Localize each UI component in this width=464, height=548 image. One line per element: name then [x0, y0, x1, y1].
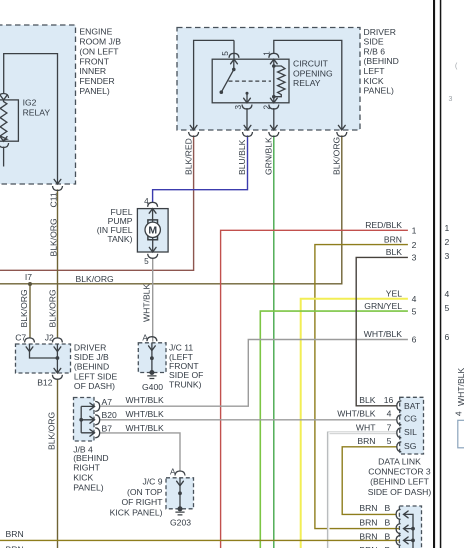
- svg-text:4: 4: [412, 294, 417, 304]
- svg-text:KICK PANEL): KICK PANEL): [110, 508, 163, 518]
- svg-text:SIL: SIL: [404, 427, 417, 437]
- svg-text:CIRCUIT: CIRCUIT: [293, 59, 329, 69]
- svg-text:1: 1: [445, 223, 450, 233]
- svg-text:BLK/RED: BLK/RED: [183, 138, 193, 175]
- svg-text:WHT/BLK: WHT/BLK: [126, 423, 164, 433]
- svg-text:1: 1: [412, 226, 417, 236]
- svg-text:3: 3: [445, 251, 450, 261]
- svg-text:B: B: [385, 532, 391, 542]
- svg-text:WHT/BLK: WHT/BLK: [142, 284, 152, 322]
- svg-text:RELAY: RELAY: [293, 78, 321, 88]
- svg-text:SIDE: SIDE: [364, 37, 384, 47]
- svg-text:LEFT: LEFT: [364, 66, 386, 76]
- svg-text:BLK/ORG: BLK/ORG: [19, 289, 29, 328]
- svg-text:WHT: WHT: [356, 422, 376, 432]
- svg-text:A: A: [170, 467, 176, 476]
- svg-text:BLK: BLK: [386, 247, 403, 257]
- svg-text:5: 5: [387, 436, 392, 446]
- svg-text:PANEL): PANEL): [73, 482, 104, 492]
- svg-text:KICK: KICK: [73, 473, 93, 483]
- svg-text:1: 1: [262, 51, 271, 56]
- svg-text:4: 4: [144, 197, 149, 206]
- svg-text:3: 3: [412, 253, 417, 263]
- svg-text:DATA LINK: DATA LINK: [378, 456, 421, 466]
- svg-text:4: 4: [445, 289, 450, 299]
- svg-text:2: 2: [412, 240, 417, 250]
- svg-text:G400: G400: [142, 382, 163, 392]
- svg-text:SIDE OF DASH): SIDE OF DASH): [368, 487, 432, 497]
- svg-text:I7: I7: [25, 272, 32, 282]
- svg-text:C7: C7: [15, 332, 26, 342]
- svg-text:WHT/BLK: WHT/BLK: [364, 329, 402, 339]
- svg-text:(BEHIND: (BEHIND: [74, 362, 109, 372]
- svg-text:3: 3: [234, 105, 243, 110]
- svg-text:J/C 9: J/C 9: [142, 477, 162, 487]
- svg-text:KICK: KICK: [364, 76, 384, 86]
- svg-text:J2: J2: [45, 332, 54, 342]
- svg-text:LEFT SIDE: LEFT SIDE: [74, 371, 118, 381]
- svg-text:DRIVER: DRIVER: [74, 343, 106, 353]
- svg-text:SG: SG: [404, 441, 417, 451]
- svg-text:(ON LEFT: (ON LEFT: [79, 46, 119, 56]
- svg-text:OF DASH): OF DASH): [74, 381, 115, 391]
- svg-text:WHT/BLK: WHT/BLK: [126, 409, 164, 419]
- svg-text:BLK: BLK: [359, 395, 376, 405]
- svg-text:FENDER: FENDER: [79, 76, 114, 86]
- svg-text:R/B 6: R/B 6: [364, 46, 386, 56]
- svg-text:CG: CG: [404, 414, 417, 424]
- svg-text:16: 16: [384, 395, 394, 405]
- svg-text:ROOM J/B: ROOM J/B: [79, 37, 121, 47]
- svg-text:BRN: BRN: [6, 544, 24, 548]
- svg-text:B7: B7: [102, 423, 113, 433]
- svg-text:BRN: BRN: [359, 518, 377, 528]
- svg-text:BRN: BRN: [384, 234, 402, 244]
- svg-text:OPENING: OPENING: [293, 68, 333, 78]
- svg-text:BLU/BLK: BLU/BLK: [237, 139, 247, 175]
- svg-text:BLK/ORG: BLK/ORG: [332, 136, 342, 175]
- svg-text:4: 4: [387, 409, 392, 419]
- svg-text:G203: G203: [170, 517, 191, 527]
- svg-text:C11: C11: [48, 192, 58, 207]
- svg-text:2: 2: [262, 105, 271, 110]
- svg-text:TRUNK): TRUNK): [169, 379, 202, 389]
- svg-text:7: 7: [387, 422, 392, 432]
- svg-text:RED/BLK: RED/BLK: [365, 220, 402, 230]
- svg-text:INNER: INNER: [79, 66, 106, 76]
- svg-text:B: B: [385, 503, 391, 513]
- svg-text:DRIVER: DRIVER: [364, 27, 396, 37]
- svg-text:BLK/ORG: BLK/ORG: [76, 274, 115, 284]
- svg-text:(ON TOP: (ON TOP: [127, 487, 163, 497]
- svg-text:PANEL): PANEL): [364, 86, 395, 96]
- svg-text:5: 5: [221, 51, 230, 56]
- svg-text:B: B: [385, 518, 391, 528]
- svg-text:(BEHIND: (BEHIND: [73, 453, 108, 463]
- svg-text:FRONT: FRONT: [79, 56, 109, 66]
- svg-text:BLK/ORG: BLK/ORG: [48, 218, 58, 257]
- svg-text:BRN: BRN: [359, 503, 377, 513]
- svg-text:BRN: BRN: [359, 532, 377, 542]
- svg-text:2: 2: [445, 237, 450, 247]
- svg-text:SIDE J/B: SIDE J/B: [74, 352, 109, 362]
- svg-text:B20: B20: [102, 410, 118, 420]
- svg-text:4: 4: [454, 411, 463, 416]
- svg-text:BRN: BRN: [6, 529, 24, 539]
- svg-text:OF RIGHT: OF RIGHT: [121, 497, 163, 507]
- svg-text:RIGHT: RIGHT: [73, 463, 100, 473]
- svg-text:(BEHIND: (BEHIND: [364, 56, 399, 66]
- svg-text:BRN: BRN: [357, 436, 375, 446]
- svg-text:5: 5: [412, 306, 417, 316]
- svg-text:TANK): TANK): [107, 234, 132, 244]
- svg-text:BLK/ORG: BLK/ORG: [47, 289, 57, 328]
- svg-text:GRN/BLK: GRN/BLK: [263, 137, 273, 175]
- svg-text:CONNECTOR 3: CONNECTOR 3: [368, 467, 431, 477]
- svg-text:WHT/BLK: WHT/BLK: [126, 395, 164, 405]
- svg-text:ENGINE: ENGINE: [79, 27, 112, 37]
- svg-text:B12: B12: [37, 377, 53, 387]
- svg-text:6: 6: [445, 332, 450, 342]
- svg-text:RELAY: RELAY: [23, 107, 51, 117]
- svg-text:A7: A7: [102, 397, 113, 407]
- svg-text:GRN/YEL: GRN/YEL: [364, 301, 402, 311]
- svg-text:A: A: [142, 333, 148, 342]
- svg-text:YEL: YEL: [386, 289, 402, 299]
- svg-text:(BEHIND LEFT: (BEHIND LEFT: [370, 477, 429, 487]
- svg-text:5: 5: [445, 303, 450, 313]
- svg-text:5: 5: [144, 257, 149, 266]
- svg-text:6: 6: [412, 335, 417, 345]
- svg-text:PANEL): PANEL): [79, 86, 110, 96]
- svg-text:BLK/ORG: BLK/ORG: [46, 411, 56, 450]
- svg-text:IG2: IG2: [23, 98, 37, 108]
- svg-text:WHT/BLK: WHT/BLK: [337, 409, 375, 419]
- svg-text:BAT: BAT: [404, 401, 421, 411]
- svg-text:WHT/BLK: WHT/BLK: [456, 368, 464, 406]
